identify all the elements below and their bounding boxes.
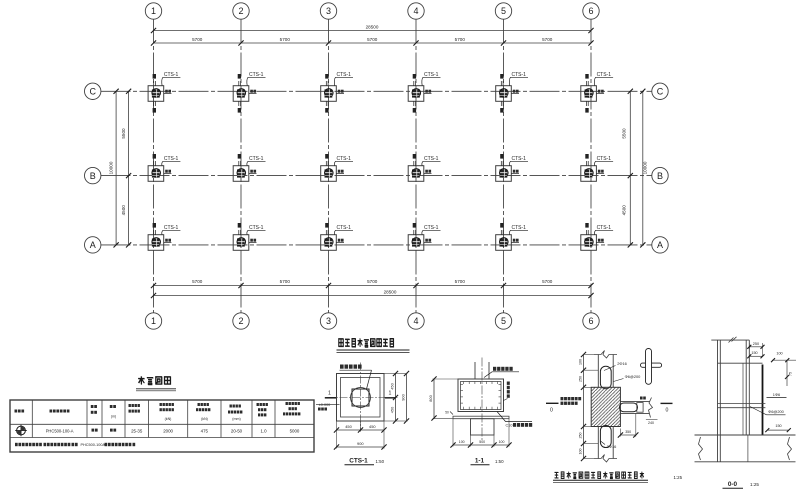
svg-text:(m): (m) (111, 415, 116, 419)
svg-text:50: 50 (445, 411, 449, 415)
grid line column 3 (328, 20, 330, 313)
svg-text:250: 250 (753, 342, 759, 346)
1-1 top-right label fill concrete C30 (484, 372, 519, 378)
svg-text:1: 1 (151, 6, 156, 16)
grid line row A (101, 244, 652, 246)
crossing beam element top right (641, 363, 662, 367)
0-0 section top beam line with break (711, 339, 749, 341)
CTS-1 bottom dimension 450/450 (336, 421, 338, 432)
svg-text:4: 4 (413, 6, 418, 16)
svg-text:1:25: 1:25 (674, 475, 683, 480)
grid bubble A left (85, 237, 101, 253)
svg-text:5000: 5000 (290, 429, 300, 434)
CTS-1 detail outer pile cap square (337, 374, 385, 422)
svg-text:0: 0 (666, 408, 669, 414)
hatched footing/beam intersection (591, 387, 620, 426)
svg-text:75: 75 (789, 372, 793, 376)
grid bubble A right (652, 237, 668, 253)
svg-text:150: 150 (751, 351, 757, 355)
pile cap footing CTS-1 at 1B (148, 166, 164, 182)
table note row text (15, 443, 42, 446)
bottom span dimensions 5700 (154, 285, 592, 287)
svg-text:500: 500 (479, 440, 485, 444)
pile cap footing CTS-1 at 3C (321, 86, 337, 102)
svg-text:800: 800 (428, 394, 433, 401)
1-1 section rebar line inside cap (461, 382, 502, 410)
svg-text:(kN): (kN) (165, 417, 172, 421)
1-1 section blinding cushion layer (453, 416, 509, 419)
svg-text:4: 4 (413, 316, 418, 326)
svg-text:900: 900 (401, 393, 406, 400)
CTS-1 detail column square (352, 389, 369, 406)
svg-text:28500: 28500 (384, 289, 397, 294)
grid bubble 4 bottom (408, 313, 424, 329)
grid bubble 4 top (408, 3, 424, 19)
svg-text:28500: 28500 (366, 24, 379, 29)
grid line row C (101, 90, 652, 92)
svg-text:(kN): (kN) (201, 417, 208, 421)
svg-text:4500: 4500 (121, 205, 126, 216)
0-0 right wall pair (745, 340, 747, 435)
CTS-1 top label (fill concrete) (340, 365, 362, 369)
pile cap footing CTS-1 at 2B (233, 166, 249, 182)
left overall dimension 10000 (115, 91, 117, 245)
grid bubble 2 top (233, 3, 249, 19)
1-1 section column stub (474, 362, 476, 379)
0-0 ground slab bottom line (695, 461, 796, 463)
top cut line with break (594, 351, 617, 359)
0-0 horizontal ledge line (718, 362, 763, 364)
svg-text:A: A (657, 240, 663, 250)
table header texts (15, 410, 25, 413)
svg-text:3: 3 (326, 316, 331, 326)
pile cap footing CTS-1 at 6A (581, 235, 597, 251)
svg-text:Φ6@200: Φ6@200 (625, 374, 642, 379)
beam detail title (554, 472, 643, 479)
pile cap footing CTS-1 at 2A (233, 235, 249, 251)
0-0 slab right break (788, 437, 792, 460)
svg-text:2000: 2000 (163, 429, 173, 434)
beam detail left label two lines (561, 397, 582, 400)
pile cap footing CTS-1 at 5A (496, 235, 512, 251)
pile cap footing CTS-1 at 6C (581, 86, 597, 102)
pile schedule table frame (10, 400, 314, 452)
svg-text:±0.000: ±0.000 (319, 403, 331, 407)
svg-text:0: 0 (550, 408, 553, 414)
svg-text:PHC500-100-A: PHC500-100-A (46, 429, 74, 434)
svg-text:450: 450 (345, 424, 352, 429)
beam stub right of hatch (620, 400, 649, 402)
0-0 dim 150 (749, 355, 762, 357)
svg-text:100: 100 (579, 449, 583, 455)
pile cap footing CTS-1 at 3B (321, 166, 337, 182)
svg-text:1:25: 1:25 (750, 482, 759, 487)
svg-text:5700: 5700 (367, 37, 378, 42)
top span dimensions 5700 (154, 42, 592, 44)
section cut mark 0 right of beam detail (661, 402, 673, 404)
svg-text:5700: 5700 (280, 279, 291, 284)
grid bubble C left (85, 83, 101, 99)
beam width dimension 350 (619, 429, 621, 437)
svg-text:B: B (657, 171, 663, 181)
0-0 inner vertical line (742, 363, 744, 435)
svg-text:1: 1 (389, 391, 392, 397)
svg-text:1:50: 1:50 (376, 459, 385, 464)
svg-text:5700: 5700 (455, 37, 466, 42)
bottom overall dimension 28500 (154, 295, 592, 297)
svg-text:CTS-1: CTS-1 (349, 458, 368, 465)
0-0 double horizontal lines mid (718, 402, 766, 404)
svg-text:1: 1 (151, 316, 156, 326)
grid bubble 2 bottom (233, 313, 249, 329)
svg-text:25-35: 25-35 (131, 429, 143, 434)
svg-text:5700: 5700 (192, 279, 203, 284)
section cut mark 1 left (325, 397, 336, 399)
CTS-1 centerlines (360, 363, 362, 432)
grid bubble 6 top (583, 3, 599, 19)
pile cap footing CTS-1 at 1A (148, 235, 164, 251)
grid bubble 1 top (145, 3, 161, 19)
svg-text:5: 5 (501, 316, 506, 326)
svg-text:Φ6@200: Φ6@200 (768, 409, 785, 414)
svg-text:150: 150 (775, 424, 781, 428)
CTS-1 right dimension 450/450 (384, 373, 398, 375)
svg-text:6: 6 (588, 316, 593, 326)
grid line column 2 (240, 20, 242, 313)
CTS-1 right overall dimension 900 (406, 374, 408, 422)
grid line column 6 (590, 20, 592, 313)
pile cap footing CTS-1 at 6B (581, 166, 597, 182)
svg-text:450: 450 (369, 424, 376, 429)
table data row (17, 426, 26, 435)
svg-text:2Φ16: 2Φ16 (617, 361, 627, 366)
pile cap footing CTS-1 at 5B (496, 166, 512, 182)
grid line column 5 (503, 20, 505, 313)
1-1 section pile cap outline (458, 379, 504, 412)
svg-text:100: 100 (459, 440, 465, 444)
svg-text:C: C (657, 87, 664, 97)
1-1 bottom-right label C10 cushion (497, 412, 532, 422)
rebar bar right of hatch (620, 403, 638, 412)
svg-text:100: 100 (499, 440, 505, 444)
grid bubble 6 bottom (583, 313, 599, 329)
svg-text:250: 250 (579, 433, 583, 439)
pile cap footing CTS-1 at 1C (148, 86, 164, 102)
1-1 bottom dimension line (452, 419, 454, 447)
svg-text:100: 100 (579, 359, 583, 365)
svg-text:450: 450 (390, 382, 395, 389)
svg-text:2: 2 (238, 6, 243, 16)
svg-text:20-50: 20-50 (231, 429, 243, 434)
svg-text:5700: 5700 (542, 37, 553, 42)
svg-text:C: C (89, 87, 96, 97)
svg-text:450: 450 (390, 406, 395, 413)
pile cap footing CTS-1 at 4B (408, 166, 424, 182)
0-0 left wall double line (717, 340, 719, 462)
section cut mark 0 left of beam detail (546, 402, 559, 404)
pile cap footing CTS-1 at 4A (408, 235, 424, 251)
svg-text:1.0: 1.0 (260, 429, 267, 434)
svg-text:5700: 5700 (280, 37, 291, 42)
svg-text:350: 350 (625, 430, 631, 434)
svg-text:5: 5 (501, 6, 506, 16)
svg-text:6: 6 (588, 6, 593, 16)
svg-text:10000: 10000 (642, 161, 647, 174)
grid line column 4 (415, 20, 417, 313)
svg-text:5700: 5700 (367, 279, 378, 284)
svg-text:C10: C10 (506, 424, 513, 428)
grid bubble 5 bottom (495, 313, 511, 329)
grid bubble 5 top (495, 3, 511, 19)
0-0 dim 250 (748, 343, 750, 349)
svg-text:(mm): (mm) (232, 417, 240, 421)
beam stub break line (649, 398, 653, 418)
svg-text:240: 240 (648, 421, 654, 425)
svg-text:1:50: 1:50 (495, 459, 504, 464)
pile schedule table title (138, 376, 170, 384)
1-1 section pile below cap (471, 419, 495, 435)
CTS-1 bottom overall dimension 900 (336, 432, 338, 449)
svg-text:250: 250 (579, 376, 583, 382)
grid bubble 3 bottom (320, 313, 336, 329)
rebar bar above hatch (600, 366, 611, 389)
svg-text:100: 100 (776, 352, 782, 356)
small mark right of beam stub (640, 397, 646, 400)
svg-text:A: A (90, 240, 96, 250)
plan title: pile and cap layout plan (339, 338, 394, 347)
grid bubble C right (652, 83, 668, 99)
grid line row B (101, 175, 652, 177)
pile cap footing CTS-1 at 2C (233, 86, 249, 102)
svg-text:1Φ6: 1Φ6 (773, 392, 780, 397)
0-0 ground slab top line (695, 434, 796, 436)
left span dimensions 5500 4500 (128, 91, 130, 245)
svg-text:5500: 5500 (622, 128, 627, 139)
top overall dimension 28500 (154, 30, 592, 32)
0-0 dim 100 right (772, 359, 796, 361)
rebar bar below hatch (600, 426, 611, 448)
pile cap footing CTS-1 at 4C (408, 86, 424, 102)
0-0 heavy rebar bar vertical (762, 365, 764, 436)
grid bubble 1 bottom (145, 313, 161, 329)
svg-text:PHC500-100A: PHC500-100A (81, 443, 106, 447)
0-0 slab left break (699, 437, 703, 460)
svg-text:1: 1 (328, 391, 331, 397)
pile cap footing CTS-1 at 5C (496, 86, 512, 102)
CTS-1 detail inner square (341, 378, 381, 418)
bottom cut line with break (594, 455, 617, 463)
grid bubble B left (85, 167, 101, 183)
beam detail left dimension chain (583, 355, 585, 459)
svg-text:B: B (90, 171, 96, 181)
svg-text:1-1: 1-1 (475, 458, 485, 465)
svg-text:0-0: 0-0 (728, 481, 738, 488)
1-1 left dimension (433, 378, 459, 380)
1-1 right rotated label pile (507, 382, 510, 385)
svg-text:5500: 5500 (121, 128, 126, 139)
svg-text:5700: 5700 (192, 37, 203, 42)
grid bubble 3 top (320, 3, 336, 19)
svg-text:5700: 5700 (542, 279, 553, 284)
svg-text:3: 3 (326, 6, 331, 16)
svg-text:2: 2 (238, 316, 243, 326)
svg-text:5700: 5700 (455, 279, 466, 284)
CTS-1 detail pile circle (351, 388, 371, 408)
column wall below hatch (597, 427, 599, 459)
svg-text:2Φ16: 2Φ16 (607, 444, 617, 449)
svg-text:10000: 10000 (109, 161, 114, 174)
svg-text:475: 475 (201, 429, 209, 434)
grid line column 1 (153, 20, 155, 313)
right overall dimension 10000 (642, 91, 644, 245)
column wall above hatch (597, 355, 599, 388)
svg-text:900: 900 (357, 441, 364, 446)
section cut mark 1 right (385, 397, 396, 399)
svg-text:4500: 4500 (622, 205, 627, 216)
pile cap footing CTS-1 at 3A (321, 235, 337, 251)
1-1 section vertical centerline (481, 358, 483, 442)
right span dimensions 5500 4500 (629, 91, 631, 245)
grid bubble B right (652, 167, 668, 183)
